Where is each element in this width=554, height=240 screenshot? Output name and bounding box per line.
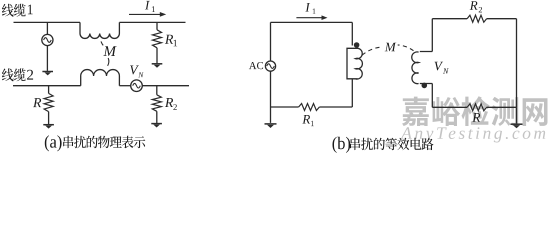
- polarity dot primary (b): [354, 42, 360, 48]
- wire cable2 middle segment: [119, 85, 130, 87]
- wire cable1 right segment: [119, 21, 185, 23]
- ground below R1 (a): [152, 63, 163, 65]
- wire secondary bottom down (b): [431, 84, 433, 108]
- inductor secondary (b): [412, 52, 433, 84]
- induced source VN (a): [131, 80, 143, 92]
- caption (a): [45, 135, 62, 151]
- wire bottom secondary right segment (b): [487, 106, 517, 108]
- wire primary bottom to bottom wire (b): [351, 79, 353, 107]
- label M (b): [385, 43, 397, 52]
- wire R drop (a): [48, 86, 50, 94]
- wire cable1 left segment: [14, 21, 81, 23]
- wire R2 to ground (a): [156, 111, 158, 123]
- current arrow I1 (a): [129, 13, 160, 15]
- wire AC source drop (a): [46, 22, 48, 34]
- ground secondary loop (b): [516, 107, 518, 123]
- label M (a): [103, 46, 116, 56]
- label R (a): [33, 98, 41, 107]
- label R load (b): [472, 113, 480, 122]
- resistor R (a): [44, 93, 53, 111]
- ground left loop (b): [270, 107, 272, 123]
- watermark AnyTesting.com: [400, 127, 545, 142]
- label I1 (b): [305, 3, 310, 11]
- ground below R (a): [43, 124, 54, 126]
- wire R1 drop (a): [156, 22, 158, 29]
- wire bottom right segment (b): [319, 106, 352, 108]
- inductor L2 (cable2 coupling coil): [81, 70, 120, 86]
- AC source (a): [42, 34, 53, 45]
- ground below R2 (a): [151, 123, 162, 125]
- current arrow I1 (b): [296, 17, 322, 19]
- mutual inductance dashed curve right (b): [398, 45, 414, 51]
- label cable1 线缆1: [2, 4, 26, 17]
- polarity dot secondary (b): [422, 83, 428, 89]
- wire right side upper left-loop (b): [351, 22, 353, 45]
- label AC (b): [249, 62, 263, 69]
- wire bottom left segment (b): [271, 106, 299, 108]
- wire AC source to ground (a): [46, 46, 48, 71]
- caption (b): [333, 137, 351, 153]
- wire bottom secondary left segment (b): [432, 106, 467, 108]
- wire R1 to ground (a): [156, 48, 158, 63]
- inductor L1 (cable1 coupling coil): [80, 22, 119, 38]
- label I1 (a): [145, 1, 150, 10]
- wire R2 drop (a): [156, 86, 158, 95]
- label R1 (b): [302, 115, 310, 124]
- resistor R1 (a): [153, 30, 162, 48]
- label R2 (a): [165, 98, 173, 107]
- wire cable2 left segment: [13, 85, 81, 87]
- mutual inductance dashed curve left (b): [362, 47, 382, 55]
- wire cable2 right segment: [142, 85, 189, 87]
- wire left side upper (b): [270, 22, 272, 61]
- label R2 (b): [470, 1, 478, 10]
- label R1 (a): [165, 35, 173, 44]
- label VN (b): [435, 62, 444, 71]
- wire top secondary loop left segment (b): [432, 18, 467, 20]
- ground below AC source (a): [42, 71, 53, 73]
- resistor R2 (b): [467, 15, 487, 22]
- watermark 嘉峪检测网: [402, 96, 548, 126]
- inductor primary (b): [347, 48, 362, 79]
- resistor R1 (b): [299, 104, 320, 111]
- resistor R2 (a): [152, 95, 161, 112]
- AC source (b): [265, 61, 275, 71]
- label cable2 线缆2: [2, 68, 26, 81]
- wire right side secondary loop (b): [516, 19, 518, 108]
- wire top secondary loop right segment (b): [487, 18, 517, 20]
- leader tick from M to L1 (a): [101, 41, 103, 45]
- label VN (a): [130, 66, 139, 75]
- wire left side lower (b): [270, 71, 272, 107]
- wire R to ground (a): [48, 112, 50, 125]
- wire top left loop (b): [271, 21, 353, 23]
- resistor R load (b): [467, 104, 486, 111]
- wire top secondary down (b): [431, 19, 433, 52]
- leader tick from M to L2 (a): [108, 58, 109, 66]
